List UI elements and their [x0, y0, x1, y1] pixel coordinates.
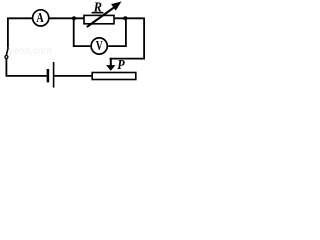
node (junction dot) left of R, top wire	[72, 16, 76, 20]
wire ammeter to resistor R	[49, 17, 84, 19]
switch pivot	[5, 56, 8, 59]
svg-text:P: P	[117, 58, 125, 73]
svg-text:V: V	[96, 39, 103, 54]
variable resistor R (body)	[84, 15, 114, 23]
svg-text:A: A	[36, 10, 43, 25]
wire right side (down)	[110, 18, 145, 59]
rheostat P (body)	[92, 73, 136, 80]
battery (cell): short plate	[47, 69, 50, 82]
wire top-left (corner to ammeter)	[8, 18, 33, 47]
wire voltmeter branch right (up to right node)	[108, 18, 126, 47]
ammeter A	[33, 10, 49, 26]
switch blade	[6, 48, 8, 56]
wire battery to bottom-left corner (up to switch)	[6, 59, 46, 76]
wire voltmeter branch left (from left node down)	[74, 18, 91, 47]
rheostat P wiper arrow	[106, 59, 115, 71]
wire rheostat to battery	[54, 75, 92, 77]
voltmeter V	[91, 38, 107, 54]
label R (underlined)	[92, 0, 104, 15]
battery (cell): long plate	[53, 62, 55, 88]
svg-text:yeoo.com: yeoo.com	[9, 46, 52, 57]
wire R to top-right corner	[115, 17, 144, 19]
variable resistor R (diagonal arrow)	[87, 2, 122, 28]
node (junction dot) right of R, top wire	[123, 16, 127, 20]
